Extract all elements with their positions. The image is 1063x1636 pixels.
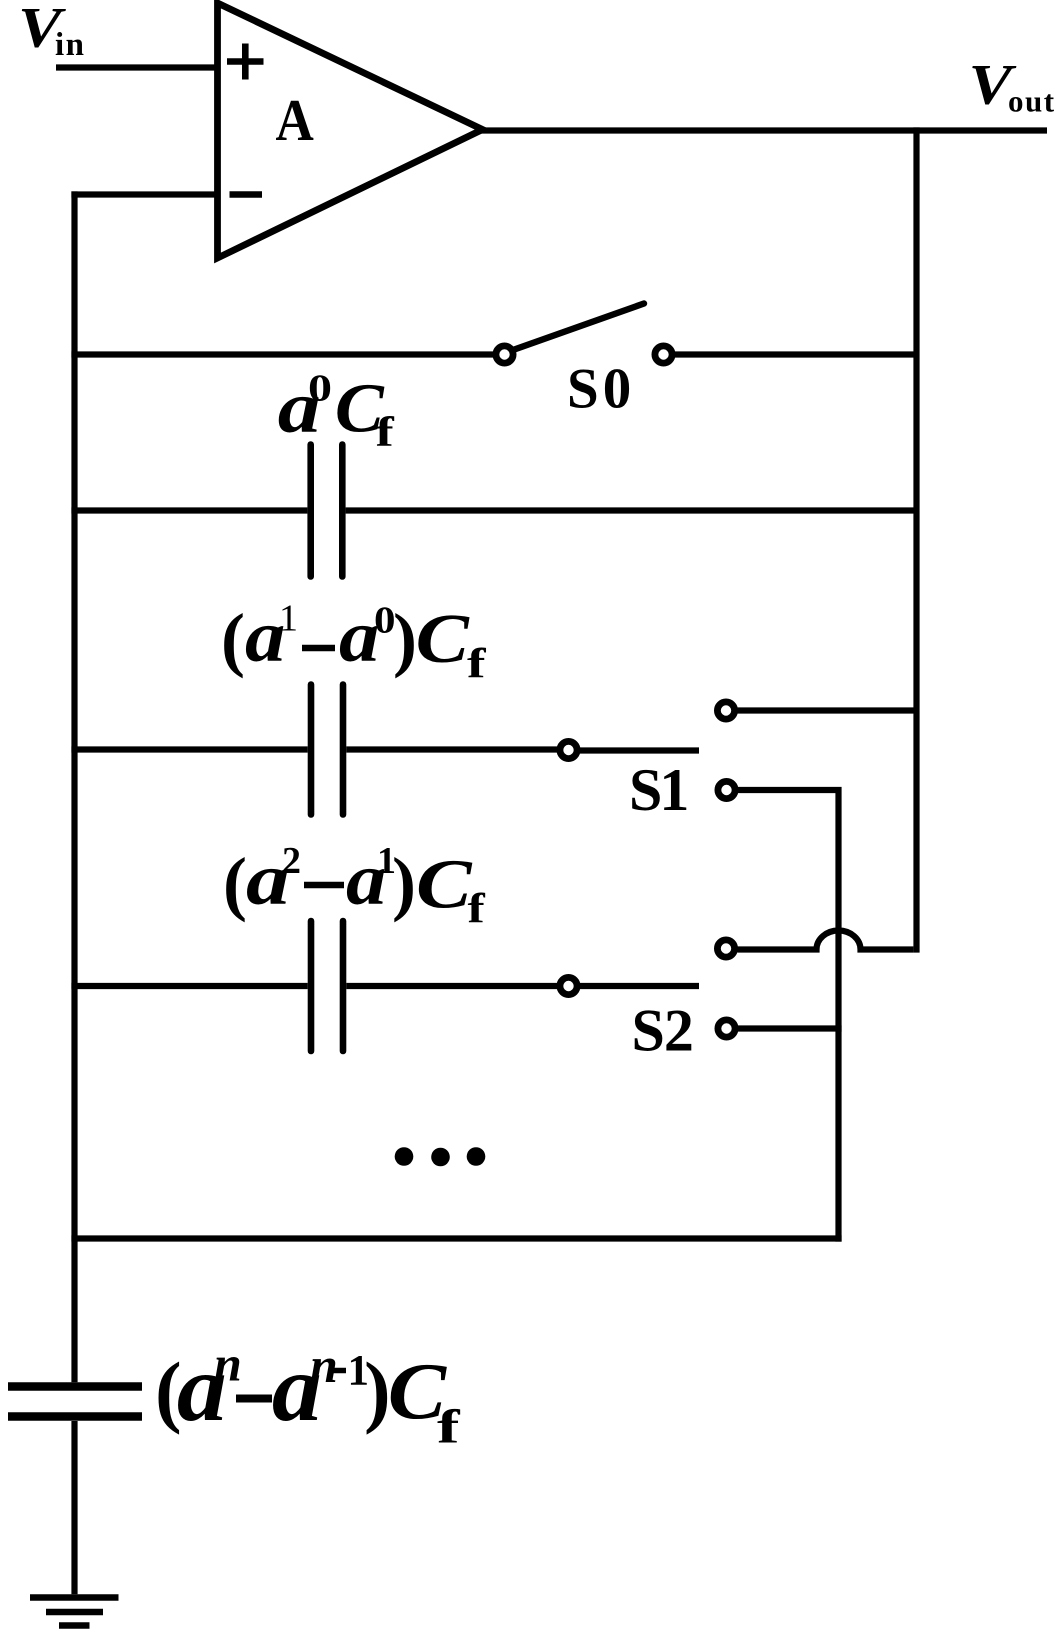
wire S2 upper throw with hop <box>738 931 914 950</box>
switch S0 contact left <box>496 346 513 363</box>
wire S0 left <box>71 351 494 357</box>
switch S1 upper throw contact <box>717 702 734 719</box>
wire node capacitor C2 row <box>71 746 558 752</box>
wire S2 lower throw <box>738 1025 842 1031</box>
svg-text:f: f <box>468 887 486 933</box>
wire capacitor C4 to ground <box>71 1421 77 1594</box>
svg-text:S1: S1 <box>629 757 686 823</box>
capacitor C4 plates <box>8 1387 142 1417</box>
svg-text:n: n <box>310 1337 338 1393</box>
capacitor C1 plates <box>311 445 343 577</box>
svg-text:f: f <box>437 1401 461 1454</box>
svg-text:): ) <box>392 843 416 923</box>
capacitor C2 plates <box>311 685 343 815</box>
svg-text:S0: S0 <box>567 358 635 421</box>
label C4 value (an-an-1)Cf <box>155 1335 461 1454</box>
svg-text:f: f <box>376 410 396 456</box>
wire left vertical bus <box>71 191 77 1382</box>
svg-text:C: C <box>416 601 471 678</box>
svg-text:1: 1 <box>279 598 298 640</box>
op-amp plus input sign <box>227 44 264 80</box>
svg-text:f: f <box>467 642 487 688</box>
wire right vertical feedback <box>913 127 919 952</box>
svg-text:out: out <box>1008 84 1056 119</box>
wire output Vout <box>479 127 1047 133</box>
svg-text:n: n <box>214 1336 242 1392</box>
wire node capacitor C1 row <box>71 507 916 513</box>
switch S2 lower throw contact <box>718 1020 735 1037</box>
wire inverting input <box>71 191 217 197</box>
wire node capacitor C3 row <box>71 983 558 989</box>
label C3 value (a2-a1)Cf <box>223 839 486 933</box>
svg-text:): ) <box>364 1348 391 1436</box>
label C2 value (a1-a0)Cf <box>221 596 487 688</box>
svg-text:C: C <box>416 847 473 924</box>
dots ellipsis <box>395 1147 486 1166</box>
svg-text:): ) <box>393 599 417 679</box>
switch S1 lower throw contact <box>718 781 735 798</box>
wire S1 lower throw down bus <box>738 787 839 1242</box>
op-amp minus input sign <box>230 191 263 198</box>
svg-text:(: ( <box>223 843 247 923</box>
svg-text:0: 0 <box>308 368 332 410</box>
svg-text:S2: S2 <box>632 998 693 1064</box>
svg-text:(: ( <box>221 599 245 679</box>
switch S0 contact right <box>655 346 672 363</box>
wire S1 upper throw to Vout <box>738 707 917 713</box>
switch S2 pole arm <box>580 983 699 989</box>
svg-text:2: 2 <box>282 840 301 882</box>
capacitor C3 plates <box>311 921 343 1051</box>
ground <box>30 1598 119 1626</box>
switch S1 pole arm <box>580 747 699 753</box>
wire bottom horizontal <box>71 1235 841 1241</box>
svg-text:A: A <box>276 87 315 153</box>
op-amp A triangle <box>218 3 483 258</box>
svg-text:in: in <box>55 27 86 63</box>
wire S0 right <box>674 351 917 357</box>
wire Vin input <box>56 64 218 70</box>
switch S0 arm <box>512 304 645 351</box>
switch S1 pole contact <box>560 741 577 758</box>
label C1 value a0Cf <box>278 367 395 457</box>
switch S2 upper throw contact <box>717 940 734 957</box>
switch S2 pole contact <box>560 977 577 994</box>
